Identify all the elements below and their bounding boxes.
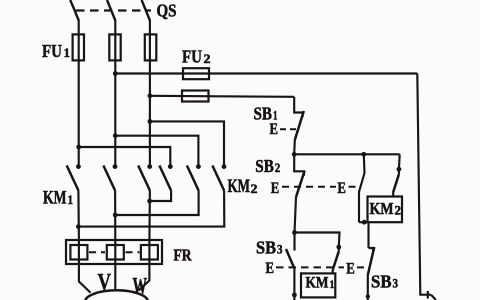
wire branch phase3 to KM2 pole6 top: [150, 121, 224, 167]
node junction phase3 branch: [148, 119, 153, 124]
disconnect switch QS blade pole 1: [70, 0, 79, 21]
wire crossover pole6 bottom to phase1: [78, 191, 224, 227]
svg-text:QS: QS: [157, 1, 177, 21]
fuse FU1 pole 2: [109, 34, 120, 60]
svg-text:3: 3: [393, 275, 399, 290]
node junction KM2 coil bottom: [362, 220, 367, 225]
right control bus vertical: [417, 74, 431, 295]
node junction KM1 aux top: [336, 245, 341, 250]
node junction phase2 branch: [113, 133, 118, 138]
pushbutton SB2 start (NO element): [294, 154, 304, 176]
motor M circle: [85, 290, 148, 300]
contactor KM1 main pole 3: [147, 164, 152, 169]
disconnect switch QS blade pole 3: [142, 0, 150, 21]
wire pole2 down to FR: [114, 191, 116, 242]
pushbutton SB2 NC element in KM2 branch: [359, 154, 365, 222]
wire branch phase1 to KM2 pole4 top: [79, 147, 171, 167]
svg-text:KM: KM: [43, 188, 67, 209]
svg-text:SB: SB: [256, 238, 276, 258]
svg-text:E: E: [337, 180, 346, 197]
svg-text:SB: SB: [255, 156, 273, 176]
pushbutton SB3 NO element in KM1 branch: [293, 233, 295, 251]
svg-text:FR: FR: [174, 246, 193, 265]
QS mechanical linkage dashed line: [76, 9, 151, 11]
FR heater element 3: [148, 241, 150, 264]
node junction pole5/phase2: [113, 213, 118, 218]
disconnect switch QS blade pole 2: [107, 0, 115, 21]
svg-text:1: 1: [64, 45, 71, 60]
wire pole3 down to FR: [148, 191, 151, 242]
svg-text:E: E: [270, 121, 279, 138]
svg-text:W: W: [133, 274, 148, 299]
svg-text:E: E: [346, 261, 355, 278]
FR trip linkage dashed: [89, 251, 105, 253]
node junction SB3 bottom: [292, 293, 297, 298]
svg-text:KM: KM: [228, 176, 251, 197]
svg-text:1: 1: [330, 277, 335, 291]
coil KM1: [301, 273, 335, 297]
node junction phase2/FU2a: [113, 71, 118, 76]
svg-text:E: E: [271, 180, 280, 197]
contactor KM1 auxiliary NO contact: [338, 247, 340, 251]
wire phase3 fuse down: [149, 20, 151, 168]
fuse FU2 lower: [182, 91, 209, 102]
node junction middle branch: [361, 152, 366, 157]
contactor KM1 main pole 2: [113, 164, 118, 169]
FR trip contact on bus: [427, 291, 429, 299]
wire KM2 coil to SB3 NC: [367, 222, 369, 248]
node junction phase3/FU2b: [148, 93, 153, 98]
wire crossover pole4 bottom to phase3: [150, 191, 172, 202]
contactor KM2 auxiliary NO contact: [398, 154, 401, 174]
svg-text:KM: KM: [370, 199, 394, 218]
node line below SB1: [294, 153, 400, 155]
svg-text:2: 2: [275, 160, 281, 175]
contactor KM2 main pole 5: [196, 164, 201, 169]
svg-text:V: V: [98, 270, 112, 295]
node junction phase1 branch: [76, 145, 81, 150]
svg-text:2: 2: [251, 181, 258, 196]
fuse FU2 upper: [183, 68, 209, 79]
wire KM1 branch parallel link: [295, 233, 340, 248]
svg-text:3: 3: [277, 242, 283, 257]
svg-text:1: 1: [68, 192, 74, 207]
fuse FU1 pole 1: [73, 34, 84, 60]
svg-text:2: 2: [204, 51, 211, 66]
wire phase1 fuse to node: [78, 20, 80, 168]
contactor KM2 main pole 6: [222, 164, 227, 169]
wire to KM2 coil bottom: [359, 221, 368, 223]
thermal relay FR body: [66, 240, 162, 264]
coil KM2: [368, 197, 403, 223]
contactor KM2 main pole 4: [168, 164, 173, 169]
svg-text:FU: FU: [42, 41, 62, 61]
FR heater element 2: [114, 241, 116, 264]
svg-text:E: E: [266, 260, 275, 277]
node junction SB1 bottom: [292, 152, 297, 157]
pushbutton SB1 stop: [294, 97, 302, 117]
wire FR to motor W: [139, 264, 150, 290]
wire pole1 down to FR: [77, 191, 80, 242]
wire FR to motor V: [114, 264, 116, 291]
node junction pole4/phase3: [147, 199, 152, 204]
wire crossover pole5 bottom to phase2: [115, 191, 198, 216]
wire control feed L3 horizontal to SB1: [150, 96, 294, 97]
wire FR to motor U: [79, 264, 91, 293]
node junction pole6/phase1: [76, 224, 81, 229]
svg-text:2: 2: [395, 203, 402, 218]
svg-text:SB: SB: [371, 271, 392, 291]
pushbutton SB3 NC element in KM2 branch: [369, 248, 374, 252]
wire branch phase2 to KM2 pole5 top: [115, 136, 198, 167]
wire phase2 fuse down: [114, 20, 116, 168]
contactor KM1 main pole 1: [76, 164, 81, 169]
fuse FU1 pole 3: [145, 34, 157, 60]
svg-text:FU: FU: [182, 47, 202, 67]
wire control feed L2 horizontal to right bus: [115, 72, 417, 74]
FR heater element 1: [78, 241, 80, 264]
svg-text:KM: KM: [306, 275, 329, 292]
node junction SB2 bottom: [292, 230, 297, 235]
